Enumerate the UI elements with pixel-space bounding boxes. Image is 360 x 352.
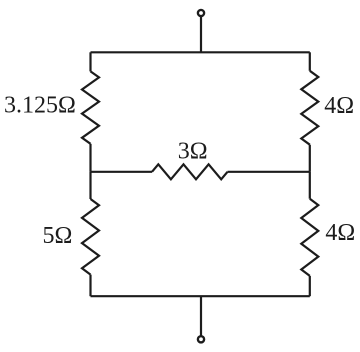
- svg-text:4Ω: 4Ω: [325, 220, 355, 246]
- wire right upper stub: [309, 52, 311, 71]
- bottom terminal: [198, 336, 204, 342]
- wire top rail: [91, 51, 310, 53]
- resistor 4Ω upper body: [301, 71, 318, 145]
- wire top terminal to top rail: [200, 17, 202, 53]
- resistor 3.125Ω body: [82, 71, 99, 143]
- wire left lower stub: [89, 275, 91, 297]
- wire left between 3.125Ω and node A: [89, 144, 91, 172]
- resistor 4Ω lower body: [301, 199, 318, 276]
- top terminal: [198, 10, 204, 16]
- svg-text:4Ω: 4Ω: [324, 93, 354, 119]
- svg-text:3Ω: 3Ω: [178, 138, 208, 164]
- svg-text:5Ω: 5Ω: [43, 223, 73, 249]
- wire right lower stub: [309, 276, 311, 296]
- wire middle left segment: [91, 171, 153, 173]
- wire right between upper 4Ω and node B: [309, 145, 311, 172]
- wire middle right segment: [228, 171, 310, 173]
- wire bottom rail to bottom terminal: [200, 296, 202, 336]
- resistor 5Ω body: [82, 199, 99, 275]
- svg-text:3.125Ω: 3.125Ω: [4, 92, 76, 118]
- wire left upper stub: [89, 52, 91, 71]
- wire left between node A and 5Ω: [89, 172, 91, 199]
- wire bottom rail: [91, 295, 310, 297]
- wire right between node B and lower 4Ω: [309, 172, 311, 199]
- resistor 3Ω body: [152, 164, 228, 179]
